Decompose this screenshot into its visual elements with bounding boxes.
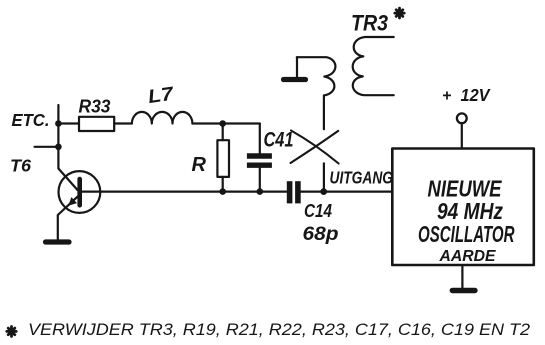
- svg-text:R33: R33: [79, 96, 111, 116]
- svg-text:+: +: [442, 88, 451, 105]
- svg-text:T6: T6: [10, 156, 31, 176]
- svg-text:AARDE: AARDE: [439, 248, 496, 265]
- svg-text:UITGANG: UITGANG: [330, 168, 394, 188]
- svg-text:ETC.: ETC.: [12, 110, 50, 130]
- svg-text:TR3: TR3: [351, 11, 388, 36]
- svg-text:OSCILLATOR: OSCILLATOR: [418, 221, 515, 247]
- svg-text:VERWIJDER TR3, R19, R21, R22,: VERWIJDER TR3, R19, R21, R22, R23, C17, …: [28, 320, 531, 339]
- svg-text:C14: C14: [304, 201, 332, 221]
- svg-text:L7: L7: [147, 84, 176, 108]
- svg-text:68p: 68p: [303, 224, 339, 245]
- svg-text:12V: 12V: [461, 85, 491, 105]
- svg-text:C41: C41: [264, 129, 294, 152]
- svg-text:R: R: [192, 154, 207, 176]
